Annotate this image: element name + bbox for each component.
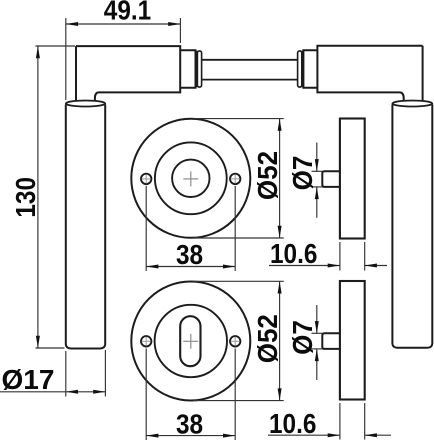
dimension Ø17 arrows <box>66 390 106 394</box>
upper 10.6 extension lines <box>340 242 365 271</box>
upper rose outer circle <box>131 119 250 238</box>
lower 10.6 extension lines <box>340 403 365 440</box>
lower rose center crosshair <box>183 334 198 349</box>
upper 38 dimension extension lines <box>146 186 235 271</box>
lower spindle stub <box>322 333 340 349</box>
dimension 130 extension lines <box>36 46 76 348</box>
dimension 130 arrows <box>36 46 40 348</box>
svg-text:10.6: 10.6 <box>269 407 316 439</box>
right grip top ellipse <box>392 101 432 107</box>
right handle thin ring <box>302 52 304 87</box>
svg-text:Ø52: Ø52 <box>252 151 283 200</box>
dimension 130 line <box>37 46 39 348</box>
left handle arm (top view) <box>76 46 180 101</box>
upper rose center crosshair <box>183 171 198 186</box>
upper Ø7 arrows <box>315 159 319 199</box>
dimension 49.1 line <box>66 23 181 25</box>
svg-text:38: 38 <box>176 239 203 271</box>
upper rose side view <box>340 119 365 239</box>
right grip body <box>392 105 432 348</box>
svg-text:Ø7: Ø7 <box>287 320 318 355</box>
svg-text:130: 130 <box>10 177 42 218</box>
lower 38 dimension extension lines <box>146 349 235 440</box>
upper 10.6 dimension line <box>269 265 387 267</box>
left handle thin ring <box>196 52 198 87</box>
right handle collar <box>303 50 317 88</box>
lower rose middle circle <box>155 305 227 377</box>
svg-text:Ø17: Ø17 <box>2 364 55 395</box>
dimension Ø17 line <box>0 391 105 393</box>
lower Ø52 witness lines <box>193 281 284 400</box>
lower rose right screw <box>230 336 240 346</box>
lower rose side view <box>340 281 365 400</box>
lower 10.6 arrows <box>328 433 377 437</box>
svg-text:38: 38 <box>176 408 203 440</box>
lower Ø7 arrow lines <box>316 305 318 380</box>
upper rose inner circle <box>172 160 209 197</box>
left grip top ellipse <box>66 101 105 107</box>
upper Ø52 witness lines <box>193 119 284 238</box>
upper 38 dimension line <box>146 266 235 268</box>
svg-text:Ø7: Ø7 <box>287 156 318 191</box>
upper Ø52 arrows <box>278 119 282 238</box>
dimension Ø17 extension lines <box>66 350 106 397</box>
upper Ø52 dimension line <box>279 119 281 238</box>
left handle convex ring <box>197 51 201 87</box>
upper spindle stub <box>322 171 340 187</box>
upper rose right screw <box>230 174 240 184</box>
svg-text:10.6: 10.6 <box>270 238 317 270</box>
lower Ø52 arrows <box>278 281 282 400</box>
lower 38 dimension line <box>146 435 235 437</box>
upper rose left screw <box>141 174 151 184</box>
lower Ø7 arrows <box>315 321 319 361</box>
upper 38 arrows <box>146 265 235 269</box>
lower Ø7 ticks <box>312 333 323 349</box>
keyhole slot <box>180 316 200 366</box>
upper 10.6 arrows <box>328 264 377 268</box>
upper Ø7 ticks <box>312 171 323 187</box>
dimension 49.1 arrows <box>66 22 181 26</box>
spindle <box>202 60 298 80</box>
right handle convex ring <box>298 51 302 87</box>
upper rose middle circle <box>155 142 227 214</box>
lower 38 arrows <box>146 434 235 438</box>
lower Ø52 dimension line <box>279 281 281 400</box>
svg-text:Ø52: Ø52 <box>252 314 283 363</box>
left grip body <box>66 105 105 349</box>
svg-text:49.1: 49.1 <box>104 0 151 26</box>
lower rose outer circle <box>131 282 250 401</box>
lower 10.6 dimension line <box>268 434 391 436</box>
dimension 49.1 extension lines <box>66 18 181 100</box>
lower rose left screw <box>141 336 151 346</box>
left handle collar <box>180 50 195 88</box>
upper Ø7 arrow lines <box>316 143 318 218</box>
right handle arm (top view) <box>317 46 422 102</box>
